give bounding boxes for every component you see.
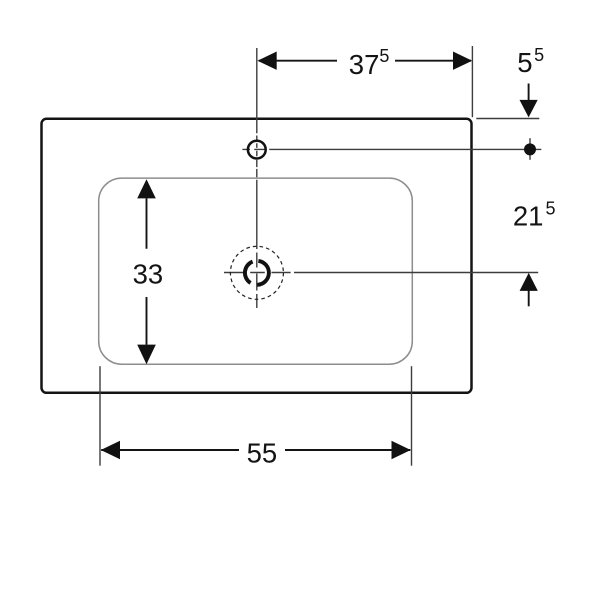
horizontal centerline through drain bbox=[224, 272, 538, 274]
vertical centerline through tap hole and drain bbox=[256, 48, 258, 180]
arrow down for 5.5 dim bbox=[528, 84, 530, 102]
extension line left of 55 dim bbox=[99, 366, 101, 466]
svg-text:55: 55 bbox=[247, 438, 278, 469]
arrow up for 21.5 dim bbox=[520, 273, 538, 291]
extension line right of 55 dim bbox=[411, 366, 413, 466]
drain thick ring right arc bbox=[257, 261, 269, 285]
arrow right of 37.5 bbox=[453, 52, 472, 70]
arrow right of 55 bbox=[392, 441, 411, 459]
arrow left of 37.5 bbox=[258, 52, 277, 70]
tap hole bbox=[248, 141, 266, 159]
dimension line 55 bbox=[101, 449, 410, 451]
horizontal centerline through tap hole bbox=[242, 148, 541, 150]
arrow left of 55 bbox=[101, 441, 120, 459]
washbasin outer outline bbox=[42, 119, 472, 393]
basin inner bowl outline bbox=[99, 178, 413, 364]
extension line right of 37.5 dim bbox=[471, 46, 473, 117]
svg-text:33: 33 bbox=[133, 258, 164, 289]
extension line at top edge for 5.5 dim bbox=[476, 118, 539, 120]
drain thick ring left arc bbox=[245, 262, 253, 283]
dot terminator on tap hole line bbox=[529, 138, 531, 160]
dimension line 37.5 bbox=[259, 60, 471, 62]
arrow down of 33 bbox=[137, 345, 156, 365]
dimension line 33 (vertical, inside basin) bbox=[146, 198, 148, 344]
drain dashed circle bbox=[230, 246, 283, 299]
arrow up of 33 bbox=[137, 179, 156, 198]
